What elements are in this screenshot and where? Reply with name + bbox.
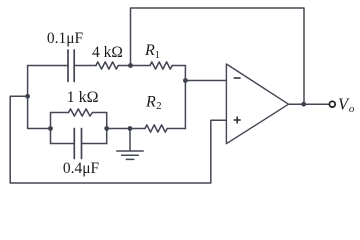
junction: block right node bbox=[104, 126, 109, 131]
svg-text:Vo: Vo bbox=[338, 95, 355, 115]
wire: R1 to inverting input corner bbox=[172, 66, 185, 129]
label: op-amp plus pin bbox=[234, 117, 241, 124]
wire: top branch of block to 1k bbox=[51, 112, 69, 114]
wire: RC block left vertical bbox=[50, 113, 52, 144]
wire: R2 to inverting vertical bbox=[167, 128, 185, 130]
wire: top feedback from output to node between 4k and R1 bbox=[131, 8, 305, 104]
wire: 1k to block right vertical bbox=[93, 112, 107, 114]
wire: RC block right vertical bbox=[106, 113, 108, 144]
wire: C1 to R3 (4k) bbox=[74, 65, 96, 67]
svg-text:R2: R2 bbox=[145, 94, 162, 113]
wire: output to terminal bbox=[289, 103, 330, 105]
wire: 4k to R1 through feedback node bbox=[118, 65, 150, 67]
svg-text:0.4μF: 0.4μF bbox=[63, 160, 100, 177]
wire: noninverting input path along bottom bbox=[10, 96, 226, 183]
svg-text:1 kΩ: 1 kΩ bbox=[67, 89, 99, 106]
junction: inverting input node bbox=[183, 78, 188, 83]
wire: top row left segment from left vertical to C1 bbox=[28, 65, 68, 67]
label: op-amp minus pin bbox=[234, 77, 241, 79]
resistor R2 bbox=[145, 125, 167, 132]
wire: left vertical rail bbox=[28, 66, 51, 129]
junction: feedback to 4k/R1 node bbox=[128, 63, 133, 68]
wire: block to ground node to R2 bbox=[107, 128, 145, 130]
junction: left rail node A bbox=[25, 94, 30, 99]
resistor R3 4 kOhm bbox=[96, 62, 118, 69]
capacitor C2 0.4uF bbox=[74, 129, 81, 159]
junction: output node bbox=[301, 102, 306, 107]
svg-text:0.1μF: 0.1μF bbox=[47, 30, 84, 47]
resistor R1 bbox=[150, 62, 172, 69]
wire: C2 to block right vertical bbox=[82, 143, 107, 145]
junction: ground node bbox=[128, 126, 133, 131]
wire: inverting input bbox=[185, 80, 226, 82]
resistor R4 1 kOhm bbox=[69, 109, 93, 116]
wire: bottom branch of block to C2 bbox=[51, 143, 75, 145]
svg-text:R1: R1 bbox=[144, 42, 160, 61]
op-amp U1 bbox=[226, 64, 288, 144]
junction: block left node bbox=[48, 126, 53, 131]
capacitor C1 0.1uF bbox=[68, 50, 74, 82]
svg-text:4 kΩ: 4 kΩ bbox=[92, 44, 123, 61]
ground bbox=[117, 129, 143, 160]
terminal: output Vo bbox=[329, 101, 335, 107]
